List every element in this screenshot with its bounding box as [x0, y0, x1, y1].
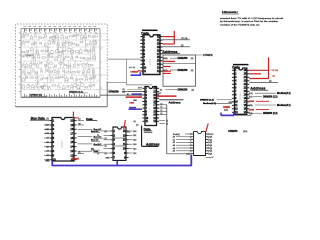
svg-text:(2): (2) [273, 75, 276, 77]
svg-text:Bus Data: Bus Data [31, 116, 45, 120]
svg-text:DRM: DRM [249, 101, 254, 103]
svg-text:18: 18 [70, 127, 73, 131]
svg-text:Q2: Q2 [210, 142, 213, 144]
U3 right Address label [169, 100, 181, 104]
address row A0 [164, 57, 194, 60]
Address label (bottom middle) [146, 143, 160, 147]
svg-text:2A0: 2A0 [133, 130, 136, 133]
svg-text:13: 13 [70, 149, 73, 153]
U7 right address rows [249, 92, 291, 115]
GND blue bus [52, 155, 191, 166]
svg-text:74HCT: 74HCT [61, 140, 64, 148]
svg-text:(2): (2) [191, 70, 194, 72]
U5 VCC red wire [124, 120, 131, 134]
U2 VCC red bus [163, 31, 175, 44]
svg-text:Vcc: Vcc [127, 132, 130, 134]
U6 left pin wires [173, 133, 191, 156]
svg-text:Q4: Q4 [210, 148, 213, 150]
svg-text:A0: A0 [173, 136, 175, 139]
svg-text:GND: GND [229, 102, 234, 104]
dashed outer frame [17, 23, 107, 25]
U3 right Address wire [159, 99, 183, 101]
U4 right bus labels [78, 128, 107, 155]
svg-text:25: 25 [166, 120, 168, 122]
svg-text:TDA8375: TDA8375 [25, 54, 34, 57]
svg-text:Address: Address [169, 100, 181, 104]
U4 VCC red wire [73, 112, 79, 120]
svg-text:DRM250: DRM250 [228, 131, 238, 133]
svg-text:Q7: Q7 [78, 119, 80, 121]
U3 right bus wire 3 [159, 113, 167, 115]
U7 VCC red bus [249, 58, 268, 79]
svg-text:A5: A5 [173, 150, 175, 153]
svg-text:Reset: Reset [72, 157, 79, 160]
svg-text:(A5): (A5) [249, 104, 253, 107]
svg-text:(out 1k): (out 1k) [129, 66, 135, 69]
SRAM U2 "Data" header [141, 30, 157, 35]
svg-text:(8.1): (8.1) [249, 93, 253, 95]
U7 bottom wire right [235, 114, 251, 116]
svg-text:A1: A1 [173, 138, 175, 141]
svg-text:Q6: Q6 [210, 153, 213, 155]
U6 VCC red wire [206, 124, 208, 133]
svg-text:(2.2): (2.2) [224, 110, 228, 112]
U2 left red label [131, 72, 140, 74]
gray net from U1 box to U2 [108, 59, 153, 85]
U3 left blue wire row3 [127, 94, 142, 96]
U2 lower blue wire [131, 72, 141, 75]
svg-text:Q0: Q0 [210, 137, 213, 139]
svg-text:16: 16 [70, 136, 73, 140]
U3 right red wire [157, 95, 177, 97]
svg-text:DRM250: DRM250 [109, 90, 120, 94]
svg-text:VR 10k: VR 10k [272, 70, 279, 72]
U3 left label row5 [134, 100, 137, 102]
note text block [220, 10, 284, 26]
U3 right bus wire 0 [159, 103, 167, 105]
wire U3 to Address label [142, 126, 159, 147]
U3 bottom left pin labels [134, 121, 139, 126]
svg-text:created from TV with t/- LCD f: created from TV with t/- LCD frequency i… [220, 17, 284, 20]
Data label (U4 right) [86, 117, 97, 121]
svg-text:DRM: DRM [130, 103, 135, 105]
U3 address bus vertical [167, 105, 186, 154]
U5 left pin wires [91, 130, 110, 160]
svg-text:Modbus(4.1): Modbus(4.1) [277, 104, 291, 107]
Bus Data label [30, 116, 49, 120]
U6 right pin labels [210, 134, 215, 156]
U2 bottom right red segs [163, 71, 171, 73]
U3 left red wire row4 [126, 96, 142, 98]
buffer U4 body [49, 118, 76, 162]
svg-text:(2): (2) [269, 81, 272, 83]
svg-text:Hinweis:: Hinweis: [222, 10, 238, 14]
svg-text:1700MHz: 1700MHz [203, 55, 214, 57]
IC U1 internals box [21, 29, 100, 98]
svg-text:Modbus(4.1): Modbus(4.1) [277, 92, 291, 95]
U3 bottom right pin wires [159, 120, 168, 125]
svg-text:19: 19 [70, 123, 73, 127]
U7 left wire row DRM [200, 100, 232, 102]
U4 left pin labels [44, 118, 50, 161]
address row A3 [164, 69, 194, 72]
svg-text:DRM250 (2.2): DRM250 (2.2) [263, 97, 278, 99]
svg-text:2A5: 2A5 [133, 152, 136, 155]
svg-text:A2: A2 [173, 141, 175, 144]
address row A2 red [164, 66, 171, 68]
decoder U6 body [190, 132, 209, 156]
U2 address map box [163, 55, 196, 86]
svg-text:DRM: DRM [249, 109, 254, 111]
svg-text:VR 10k: VR 10k [181, 38, 188, 40]
U6 bottom right wire [206, 156, 214, 157]
svg-text:GND: GND [186, 153, 191, 155]
svg-text:GND: GND [106, 157, 111, 159]
latch U3 body [142, 87, 159, 126]
svg-text:DRM250: DRM250 [178, 69, 188, 72]
1700MHz net stub [196, 55, 214, 57]
U2 Address label [162, 50, 180, 54]
svg-text:Q5: Q5 [210, 151, 213, 153]
U7 OE wire [249, 81, 278, 83]
DRM250 (2) bus label row [109, 90, 144, 94]
U7 blue GND wire [221, 112, 234, 116]
svg-text:17: 17 [70, 132, 73, 136]
svg-text:GND: GND [45, 161, 50, 163]
svg-text:Q3: Q3 [210, 145, 213, 147]
U3 left red label [130, 103, 135, 105]
blue bus branch to U5 [116, 161, 118, 166]
bus wire to U3 [100, 95, 143, 97]
wire U1 box to U3 row [107, 82, 126, 84]
U3 left wire row1 [123, 88, 143, 92]
U2 OE wire [163, 45, 190, 47]
svg-text:DRM250: DRM250 [178, 89, 188, 92]
svg-text:variation of the TDA8375 chip: variation of the TDA8375 chip set. [220, 23, 260, 26]
driver U5 body [110, 127, 128, 160]
svg-text:(2): (2) [191, 58, 194, 60]
svg-text:24: 24 [166, 123, 168, 125]
U2 left gray label [129, 66, 135, 69]
svg-text:(4): (4) [136, 124, 139, 126]
svg-text:(3.3): (3.3) [243, 131, 248, 133]
svg-text:A4: A4 [173, 147, 175, 150]
svg-text:DRM250 (2.2): DRM250 (2.2) [200, 100, 214, 102]
svg-text:Q6: Q6 [78, 123, 80, 125]
svg-text:DRM250: DRM250 [178, 57, 188, 60]
svg-text:800: 800 [134, 100, 137, 102]
svg-text:14: 14 [70, 145, 73, 149]
svg-text:(2): (2) [47, 118, 50, 120]
U3 right row (1) DRM250 [160, 89, 194, 92]
U3 right bus wire 1 [159, 107, 167, 109]
svg-text:2A1: 2A1 [133, 134, 136, 137]
svg-text:Q1: Q1 [210, 139, 213, 141]
svg-text:Serial(.): Serial(.) [173, 133, 180, 136]
svg-text:(2): (2) [123, 92, 126, 94]
U1 internal circuitry [19, 27, 112, 97]
U3 right OUT row [157, 93, 162, 95]
svg-text:DRM250 (2.2): DRM250 (2.2) [263, 113, 278, 115]
svg-text:62256: 62256 [150, 58, 152, 65]
U3 right bus wire 2 [159, 110, 167, 112]
svg-text:(2): (2) [192, 90, 195, 92]
svg-text:15: 15 [70, 140, 73, 144]
EPROM U7 body [232, 68, 250, 114]
U7 left wire row GND [203, 102, 233, 105]
U2 WE wire [163, 38, 190, 40]
U7 Address label [250, 87, 268, 91]
address row A1 red [164, 60, 176, 62]
svg-text:(A7): (A7) [249, 96, 253, 99]
svg-text:DRM250: DRM250 [131, 72, 140, 74]
svg-text:20: 20 [70, 119, 73, 123]
U2 lower red tick [138, 70, 141, 72]
svg-text:2A3: 2A3 [133, 143, 136, 146]
svg-text:Address: Address [146, 143, 160, 147]
U4 red reset label [72, 157, 79, 160]
svg-text:DRM2: DRM2 [223, 106, 230, 109]
U3 left wire row2 [122, 90, 142, 92]
svg-text:27C512: 27C512 [240, 92, 242, 100]
U3 Data label [144, 127, 153, 132]
svg-text:A3: A3 [173, 144, 175, 147]
svg-text:Modbus(4.1): Modbus(4.1) [203, 102, 216, 105]
svg-text:2A2: 2A2 [133, 139, 136, 142]
U4 GND pin label [45, 161, 50, 163]
U5 right pin wires [129, 130, 137, 155]
U3 left blue wire row6 [129, 107, 136, 109]
DRM250 (3.3) label [228, 131, 247, 133]
svg-text:(A0): (A0) [164, 57, 168, 60]
svg-text:(4): (4) [134, 121, 137, 123]
svg-text:(1): (1) [160, 90, 163, 92]
U7 red pin notes [272, 70, 279, 78]
U4 right top wires [78, 119, 84, 125]
svg-text:by Schneiderman. Is used as Pi: by Schneiderman. Is used as Pitch for th… [220, 20, 279, 23]
U1 labels [25, 54, 88, 96]
svg-text:(2): (2) [181, 45, 184, 47]
svg-text:VCC: VCC [210, 134, 215, 136]
U3 left blue wire row7 [129, 108, 143, 110]
U7 left red label [223, 106, 230, 112]
EPROM U7 "Data" header [232, 65, 248, 70]
U4 lower right wires [78, 152, 84, 154]
SRAM U2 body [140, 35, 162, 75]
svg-text:2A4: 2A4 [133, 147, 136, 150]
